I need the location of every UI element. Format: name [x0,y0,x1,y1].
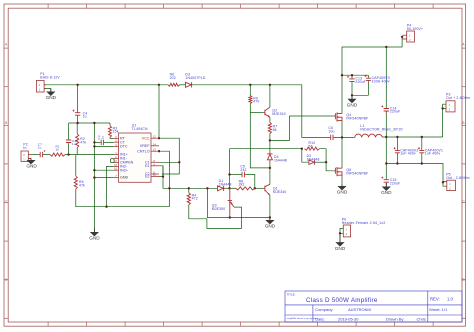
node bias-VCC [158,84,160,86]
wire P2 to C7 [32,154,39,156]
ground P2 [26,159,37,169]
svg-text:470: 470 [253,100,259,104]
svg-text:C: C [5,200,8,204]
capacitor C14 polarized [384,107,389,113]
wire P1 pin2 stub [44,84,46,86]
capacitor CAP400V2 [394,147,400,154]
node R10D2 right [325,161,327,163]
wire cap400v1 hanger [421,137,423,150]
node CT-C3 [93,141,95,143]
svg-text:2: 2 [449,187,451,191]
wire P3 riser and pins [443,104,446,137]
svg-text:Company:: Company: [315,307,333,312]
node R4 top [188,187,190,189]
node cap400v1 bottom [421,162,423,164]
svg-text:GND: GND [335,246,346,251]
node C13 rail tap [351,74,353,76]
U1 pin stubs left [114,138,159,177]
node staple-C1 [178,161,180,163]
wire D4 bottom to Q1 collector [269,161,271,185]
svg-text:472: 472 [192,197,198,201]
diode D3 [186,82,193,87]
wire C15 to gnd [385,183,387,187]
svg-text:BIAS 8-12V: BIAS 8-12V [40,76,60,80]
wire D1 anode branch riser [207,188,270,217]
wire GND pin to ground riser [94,177,113,179]
node C14 vplus tap [385,46,387,48]
svg-text:B: B [5,121,8,125]
node gndbus-C4 [76,122,78,124]
node C13 gnd tap [351,94,353,96]
svg-text:1N4448: 1N4448 [219,182,232,186]
capacitor CAP400V3 [365,75,371,82]
wire ground bus [69,122,110,124]
resistor R7 [268,123,271,134]
svg-text:GND: GND [89,236,100,241]
U1 pin names [120,137,134,180]
svg-text:90-100V+: 90-100V+ [407,27,423,31]
svg-text:16: 16 [114,167,117,171]
node R7 bottom [269,139,271,141]
svg-text:2: 2 [39,83,41,87]
wire R4 top hanger [188,188,190,193]
ground driver stage [265,218,276,229]
svg-text:1k: 1k [56,148,60,152]
svg-text:MJE340: MJE340 [273,190,287,194]
connector P1 box [36,81,44,93]
node P4 pin [401,36,403,38]
svg-text:242: 242 [240,168,246,172]
node R10D2 left [301,148,303,150]
wire C5 branch vertical [229,149,231,189]
svg-text:47k: 47k [79,184,85,188]
svg-text:15k: 15k [113,130,119,134]
wire C10 branch top [68,123,70,139]
wire C15 branch [385,137,387,179]
svg-text:VCC: VCC [142,136,150,140]
svg-text:Out - 2-8OHm: Out - 2-8OHm [446,176,469,180]
node CNTLO riser crossing [168,187,170,189]
wire P2 pin1 to gnd [28,159,31,161]
capacitor C13 plus mark [347,76,349,78]
resistor R1 [50,153,65,156]
wire Q1 emitter to gnd rail [269,196,271,218]
svg-text:1: 1 [409,34,411,38]
svg-text:1N4448: 1N4448 [307,157,320,161]
wire C14 bottom to out line [385,113,387,137]
node caps rail left [385,162,387,164]
svg-text:IRF540NPBF: IRF540NPBF [346,117,368,121]
wire P1 pin1 to gnd [44,89,51,93]
svg-text:GND: GND [26,163,37,168]
inductor L1 [355,134,383,137]
svg-text:1uF 400v: 1uF 400v [400,152,416,156]
svg-text:2k2: 2k2 [239,183,245,187]
node C5R8 right [254,187,256,189]
svg-text:1u: 1u [72,142,76,146]
wire C4 bottom to ground bus [77,118,79,124]
connector P6 box [343,225,350,237]
wire D2 parallel branch [302,149,309,163]
wire cap400v1 bottom [421,154,423,164]
svg-text:AUSTRONIX: AUSTRONIX [348,307,372,312]
svg-text:10: 10 [153,173,156,177]
wire P4 feed [342,37,402,113]
svg-text:1uF 400v: 1uF 400v [425,152,441,156]
wire R5 hanger [75,155,77,176]
svg-text:A: A [5,43,8,47]
wire cap400v3 hanger top [367,75,369,77]
svg-text:Drawn By:: Drawn By: [386,317,404,322]
capacitor C14 plus mark [381,105,383,107]
wire VCC to C2 staple [159,138,179,174]
capacitor CAP400V1 [418,147,424,154]
connector P3 box [446,101,455,112]
U1 pin numbers [114,135,156,178]
wire D3 cathode to bootstrap corner [193,85,331,138]
wire Q6 source to gnd [341,177,343,184]
wire SW down to Q6 drain [341,137,343,167]
node CNTLO pin [158,150,160,152]
wire D1 cathode to R8 [225,187,235,189]
svg-text:TL494CN: TL494CN [132,127,148,131]
svg-text:TITLE:: TITLE: [287,292,296,296]
wire caps bottom rail to P5 [386,164,443,183]
wire P6 to gnd [339,233,341,242]
svg-text:2019-05-30: 2019-05-30 [338,317,359,322]
svg-text:MJE340: MJE340 [272,112,286,116]
title block outline [285,291,462,322]
svg-text:In: In [23,146,26,150]
svg-text:B: B [462,121,465,125]
svg-text:C: C [462,200,465,204]
svg-text:14: 14 [153,142,156,146]
mosfet Q6 [334,167,342,177]
wire VCC riser [158,85,160,138]
svg-text:1: 1 [39,88,41,92]
svg-text:A: A [462,43,465,47]
wire Q2 base tap [250,111,263,113]
svg-text:GND: GND [347,102,358,107]
svg-text:MJE350: MJE350 [212,207,226,211]
svg-text:GND: GND [337,190,348,195]
wire C13 bottom rail [352,94,368,96]
svg-text:1: 1 [346,227,348,231]
svg-text:GND: GND [265,223,276,228]
wire D2 cathode to corner [316,161,326,163]
connector pin digits [23,34,451,236]
title block small cell divider [312,305,314,322]
wire IN2- drop [107,166,114,206]
svg-text:220uF: 220uF [390,110,401,114]
node IN2minus-rail [105,206,107,208]
node driver gnd [269,216,271,218]
wire corner to Q6 gate [326,162,334,171]
wire Q2 emitter to R7 [269,118,271,123]
resistor R5 [74,176,77,189]
svg-text:100H 400v: 100H 400v [372,80,390,84]
node DTC [93,145,95,147]
wire cap400v3 bottom [367,82,369,96]
wire cap400v2 hanger [396,137,398,150]
wire ground riser x94 [93,123,95,232]
wire bias rail P1 to R6 [46,84,168,86]
TITLE BLOCK [285,291,462,322]
transistor Q3 [228,188,234,217]
wire P3 pin2 stub [443,107,446,109]
svg-text:1u: 1u [100,136,104,140]
svg-text:10u: 10u [328,130,334,134]
node vplus rail corner [341,74,343,76]
node VCC pin [158,137,160,139]
wire C3 to CT pin [104,141,114,143]
title block row line 2 [285,314,462,316]
svg-text:GND: GND [46,95,57,100]
wire C5 right lead [245,175,255,189]
wire IN1- CMPEN loop [110,159,114,163]
capacitor C7 [39,152,44,157]
wire R9 bottom to bias chain [250,104,270,168]
wire R9 hanger [249,85,251,96]
svg-text:Out + 2-8OHm: Out + 2-8OHm [446,96,470,100]
node P6 pins [339,232,341,234]
wire E1 E2 join bracket [159,166,163,177]
svg-text:12: 12 [153,135,156,139]
ground C15 [381,183,392,195]
svg-text:Sheet: 1/1: Sheet: 1/1 [429,307,448,312]
diode D1 [217,186,225,191]
connector P5 box [447,180,456,190]
svg-text:56: 56 [309,144,313,148]
capacitor C4 plus mark [73,110,75,112]
svg-text:Header-Female 2.54_1x2: Header-Female 2.54_1x2 [342,221,386,225]
node D1 cathode 4way [228,187,230,189]
node C14 out tap [385,136,387,138]
ground P6 [335,233,346,251]
capacitor C3 [100,140,103,145]
wire C13 hanger top [351,75,353,78]
ground P1 [46,89,57,100]
wire E join to driver line [163,166,217,189]
svg-text:1: 1 [23,157,25,161]
capacitor C7 plus mark [44,150,46,152]
node Q4 source SW [341,136,343,138]
svg-text:GND: GND [120,176,129,180]
wire C10 branch bottom [68,144,70,155]
title block rev column divider [427,291,429,322]
capacitor C5 [241,172,245,177]
node bias-C4 [76,84,78,86]
node cap400v1 top [421,136,423,138]
svg-text:1N4007PLD: 1N4007PLD [185,76,205,80]
wire P5 pin1 stub [443,182,447,187]
node bias-R9 [249,84,251,86]
wire R2 branch top [76,123,78,134]
svg-text:56: 56 [273,128,277,132]
ground IC [89,228,100,241]
svg-text:1: 1 [449,103,451,107]
resistor R9 [249,96,252,104]
ground Q6 [337,184,348,195]
wire D4 top lead [269,140,271,151]
wire gate A drive to Q4 [270,116,334,140]
transistor Q2 [264,107,270,117]
node bias-Q2C [269,84,271,86]
capacitor C15 plus mark [381,177,383,179]
border letters [5,43,465,283]
transistor Q1 [264,184,270,195]
ground C13 [347,95,358,107]
resistor R6 [168,83,180,86]
wire IN2+ to ground riser [94,169,113,171]
wire R10 right corner [320,149,327,163]
connector P2 box [21,151,28,161]
wire P6 pins bracket [340,229,343,234]
wire out line L1 to P3 riser [382,136,442,138]
node D1 anode branch [206,187,208,189]
capacitor C6 [330,135,333,140]
wire C13 bottom [351,82,353,95]
resistor R8 [236,187,255,190]
capacitor C15 polarized [384,179,389,183]
wire R5 to feedback rail [76,189,170,207]
svg-text:15: 15 [114,163,117,167]
node C5 left [228,173,230,175]
op-amp U1 TL494CN body [119,133,151,182]
wire C13 top rail [342,74,368,76]
svg-text:1u: 1u [83,115,87,119]
node P3 pins [441,107,443,109]
node D4 bottom [269,167,271,169]
svg-text:VREF: VREF [140,144,151,148]
wire R2 branch bottom [76,148,78,155]
wire C13 gnd stem [351,95,353,99]
connector P4 box [407,31,415,42]
diode D4 [267,152,272,161]
wire C1 to staple [159,161,179,163]
wire R4 bottom to gnd rail [189,205,242,229]
diode D2 [309,160,317,165]
node input-R1 [67,153,69,155]
svg-text:13: 13 [153,148,156,152]
capacitor C4 polarized [75,112,80,118]
wire cap400v2 bottom [396,154,398,164]
svg-text:1N4448: 1N4448 [274,158,287,162]
wire C7 to R1 [44,154,50,156]
svg-text:GND: GND [381,190,392,195]
wire Q2 collector riser [269,85,271,107]
svg-text:CNTLO: CNTLO [137,149,150,153]
svg-text:1: 1 [449,182,451,186]
wire Q4 source to SW [341,123,343,138]
title block row line 1 [285,304,462,306]
node E join [162,175,164,177]
svg-text:2: 2 [409,38,411,42]
capacitor C10 [66,139,71,144]
U1 pin stubs right [151,137,159,139]
wire R6 to D3 [180,84,186,86]
node cap400v2 bottom [396,162,398,164]
wire C5 left lead [230,174,242,176]
wire Q6 gate drive line [230,148,302,150]
svg-text:E1: E1 [145,164,150,168]
wire R7 bottom to gate branch dot [269,134,271,141]
svg-text:IN2+: IN2+ [120,168,128,172]
svg-text:202: 202 [170,76,176,80]
wire DTC pin to ground riser [94,145,113,147]
wire R8 to Q1 base [255,187,264,189]
svg-text:REV:: REV: [430,296,440,301]
wire C3 left lead [94,141,100,143]
svg-text:1.0: 1.0 [447,296,453,301]
svg-text:Class D 500W Amplifire: Class D 500W Amplifire [306,297,378,304]
svg-text:IRF540NPBF: IRF540NPBF [346,172,368,176]
wire R3 to RT pin [110,137,114,138]
resistor R3 [109,126,112,138]
wire R3 hanger [109,123,111,126]
svg-text:Chris: Chris [417,317,426,322]
svg-text:DTC: DTC [120,145,128,149]
wire input node to IN1+ pin [65,154,114,156]
wire CNTLO riser [159,151,169,207]
mosfet Q4 [334,112,342,122]
node P5 pins [442,181,444,183]
node IN2plus [93,169,95,171]
resistor R10 [305,147,320,150]
svg-text:easyEDA: where is my clip bloc: easyEDA: where is my clip block [287,317,320,320]
svg-text:220uF: 220uF [355,80,366,84]
wire C4 top branch [77,85,79,112]
svg-text:INDUCTOR_RING_30*20: INDUCTOR_RING_30*20 [360,128,402,132]
node gndbus-riser [93,122,95,124]
svg-text:47k: 47k [80,140,86,144]
node cap400v2 top [396,136,398,138]
svg-text:2: 2 [346,232,348,236]
svg-text:E2: E2 [145,175,150,179]
svg-text:220uF: 220uF [390,181,401,185]
capacitor C13 polarized [349,78,354,82]
node GNDpin [93,176,95,178]
node Q3 collector rail [229,216,231,218]
wire C6 right lead to SW [334,136,355,138]
resistor R4 [187,193,190,205]
svg-text:2: 2 [449,107,451,111]
wire C14 branch from vplus [385,47,387,107]
svg-text:2: 2 [23,153,25,157]
resistor R2 [76,134,79,148]
svg-text:1u: 1u [38,146,42,150]
